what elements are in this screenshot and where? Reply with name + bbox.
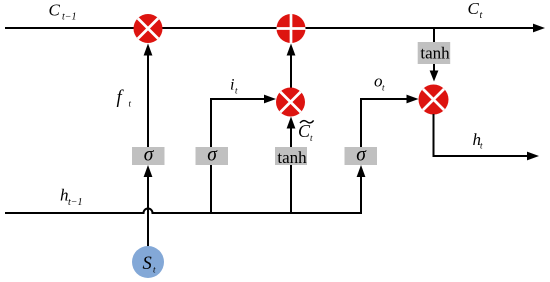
svg-text:t−1: t−1 — [68, 197, 83, 208]
svg-text:tanh: tanh — [420, 44, 450, 63]
adder A1 — [274, 12, 308, 45]
tanh1 box (candidate) — [275, 147, 307, 167]
svg-text:t: t — [310, 133, 313, 143]
svg-text:t: t — [382, 83, 385, 93]
wire: f_t arrow from sigma1 up to multiplier M1 — [147, 52, 149, 148]
svg-text:t: t — [129, 99, 132, 109]
wire: junction from top line down to tanh2 — [433, 28, 435, 42]
multiplier M2 (input gate) — [276, 88, 305, 117]
wire: tanh2 down into M3 — [433, 64, 435, 72]
svg-text:f: f — [117, 88, 125, 108]
sigma1 box (forget gate) — [132, 145, 165, 166]
arrowhead C_t output — [533, 24, 545, 33]
sigma2 box (input gate) — [196, 145, 229, 166]
svg-text:S: S — [143, 254, 152, 274]
wire: i_t from sigma2 through box up and right into M2 — [211, 99, 267, 213]
svg-text:C: C — [49, 1, 61, 20]
tanh2 box (output squash) — [418, 42, 451, 64]
svg-text:σ: σ — [144, 145, 155, 166]
wire: tanh1 down to bottom line — [290, 164, 292, 213]
sigma3 box (output gate) — [345, 145, 378, 166]
wire: top cell-state line C — [5, 27, 534, 29]
svg-text:t: t — [480, 10, 483, 21]
input node S_t (blue circle) — [132, 246, 164, 278]
svg-text:tanh: tanh — [277, 148, 307, 167]
wire: multiplier M2 up to adder A1 — [290, 52, 292, 89]
node C~_t label — [298, 120, 314, 143]
svg-text:t−1: t−1 — [62, 12, 77, 23]
multiplier M3 (output gate) — [419, 85, 449, 115]
wire: bottom hidden-state line h with hop over S_t line — [5, 169, 361, 213]
wire: tanh1 up into M2 — [290, 125, 292, 148]
wire: M3 down then right to h_t output arrow — [434, 114, 529, 156]
svg-text:σ: σ — [356, 145, 367, 166]
wire: S_t up into sigma1 — [147, 173, 149, 247]
svg-text:t: t — [480, 141, 483, 151]
svg-text:i: i — [230, 77, 234, 94]
multiplier M1 (forget gate) — [134, 14, 163, 43]
svg-text:σ: σ — [207, 145, 218, 166]
svg-text:t: t — [235, 86, 238, 96]
wire: o_t from sigma3 up and right into M3 — [361, 99, 410, 148]
svg-text:C: C — [468, 0, 480, 18]
